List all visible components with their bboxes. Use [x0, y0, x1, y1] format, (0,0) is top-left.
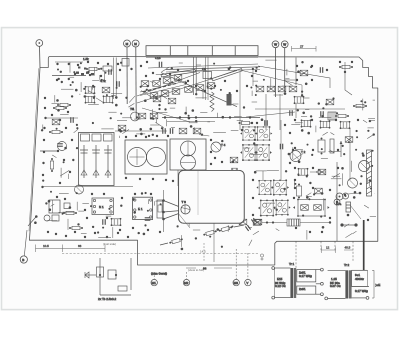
junction [83, 88, 85, 90]
caps left of cans [163, 128, 165, 134]
wire [329, 151, 341, 153]
wire [122, 117, 132, 119]
svg-text:48.5: 48.5 [345, 246, 351, 250]
wire [374, 193, 376, 195]
misc wires across board [42, 58, 352, 233]
junction [49, 208, 52, 211]
wire left edge double line [29, 69, 39, 232]
junction [119, 129, 121, 131]
left column dots [41, 97, 73, 188]
wire [88, 103, 99, 105]
resistor [353, 104, 367, 107]
capacitor pair [290, 110, 292, 116]
junction [207, 86, 209, 88]
junction [57, 109, 60, 112]
box with X [300, 70, 308, 76]
junction [309, 182, 311, 184]
cluster E2 center-right cans [211, 120, 294, 180]
svg-text:27: 27 [300, 45, 304, 49]
striped vertical box [346, 202, 351, 212]
junction [41, 129, 43, 131]
wire [285, 79, 296, 81]
junction [297, 173, 299, 175]
wire long [167, 121, 215, 123]
pointer bar 1 [161, 70, 196, 78]
svg-text:M3: M3 [234, 281, 238, 285]
wire [370, 215, 376, 217]
wire [351, 161, 353, 172]
wire [120, 129, 125, 132]
wire [341, 173, 343, 185]
wire [323, 198, 325, 210]
junction [355, 149, 357, 151]
junction [87, 71, 89, 73]
junction [146, 89, 148, 91]
junction [255, 94, 257, 96]
junction [232, 160, 234, 162]
wire [128, 103, 134, 107]
transistor T4 [211, 142, 221, 152]
junction [132, 108, 135, 111]
junction [318, 102, 320, 104]
junction [301, 129, 304, 132]
svg-text:Tr 1: Tr 1 [289, 262, 295, 266]
wire [239, 118, 241, 130]
junction [152, 118, 154, 120]
junction [360, 100, 362, 102]
wire [352, 231, 356, 234]
junction [310, 115, 312, 117]
junction [217, 228, 220, 231]
wire [237, 120, 243, 122]
junction [50, 191, 52, 193]
xbox above cans [138, 113, 146, 119]
wire [252, 101, 258, 103]
capacitor C5 [159, 62, 161, 68]
junction [160, 203, 162, 205]
svg-text:}+E: }+E [376, 283, 381, 287]
diagonal wire [350, 205, 361, 219]
svg-text:T 2: T 2 [301, 150, 306, 154]
terminal W2 [281, 41, 288, 92]
junction [241, 129, 244, 132]
wire [177, 170, 179, 186]
wire vertical [239, 72, 241, 117]
box row above big box [85, 95, 96, 103]
dashed projection [203, 243, 205, 262]
junction [364, 101, 366, 103]
pointer bar 2 [212, 69, 242, 81]
junction [105, 72, 107, 74]
resistor R40 [63, 211, 77, 214]
svg-text:V: V [246, 281, 248, 285]
svg-text:M1: M1 [152, 281, 156, 285]
junction [73, 71, 75, 73]
wire [134, 118, 141, 120]
wire [202, 89, 204, 99]
wire [59, 211, 63, 213]
junction [256, 67, 258, 69]
wire [61, 88, 74, 90]
junction [370, 188, 372, 190]
resistor R20 [339, 65, 353, 68]
junction [301, 91, 303, 93]
junction [161, 127, 163, 129]
svg-text:T 4: T 4 [221, 143, 226, 147]
junction [76, 127, 78, 129]
junction [101, 79, 103, 81]
wire [101, 128, 113, 130]
svg-text:0.17 Wdg: 0.17 Wdg [299, 274, 312, 278]
dots [125, 135, 212, 182]
wire [63, 211, 75, 213]
junction [115, 104, 118, 107]
junction [313, 193, 315, 195]
junction [321, 192, 324, 195]
xbox [118, 125, 126, 131]
cluster E center IF modules [125, 113, 212, 182]
svg-text:14.5: 14.5 [200, 249, 206, 253]
wire [47, 220, 57, 222]
junction [254, 171, 257, 174]
wire [300, 222, 330, 224]
wire [304, 97, 310, 99]
junction [48, 200, 51, 203]
junction [71, 95, 73, 97]
junction [92, 86, 94, 88]
IF can Fi4 [255, 126, 273, 141]
wire [364, 205, 369, 208]
IF can row2 [258, 199, 276, 216]
cluster A top-left components [52, 57, 119, 107]
terminal W1 [272, 41, 279, 97]
wire [59, 193, 69, 195]
resistor R1 [86, 67, 100, 70]
wire [98, 236, 111, 238]
wire [185, 107, 187, 113]
transistor T3 [181, 200, 190, 214]
wire [216, 113, 218, 118]
wire [181, 235, 183, 247]
junction [171, 67, 173, 69]
small box [64, 203, 70, 209]
box K2 [102, 87, 110, 93]
wire [94, 68, 96, 76]
junction [209, 236, 211, 238]
box K40 [111, 218, 122, 226]
wire [52, 103, 60, 105]
wire [295, 122, 303, 124]
wire [284, 80, 293, 85]
wire [262, 171, 264, 180]
small box on edge [122, 59, 129, 67]
dimension bottom-center dashed [62, 252, 258, 254]
junction [171, 81, 173, 83]
big rounded rect over texture [179, 170, 245, 223]
wire [108, 111, 116, 113]
junction [195, 93, 197, 95]
wire long horizontal [166, 67, 260, 70]
junction [263, 79, 265, 81]
junction [61, 81, 63, 83]
wire [40, 150, 57, 152]
wire [154, 201, 156, 205]
junction [64, 147, 67, 150]
junction [116, 87, 118, 89]
junction [76, 192, 78, 194]
junction [322, 226, 325, 229]
svg-text:N 1: N 1 [99, 205, 104, 209]
slanted capacitor [251, 218, 256, 224]
transistor T1 [131, 112, 140, 121]
coil L1 [103, 66, 112, 71]
junction [288, 153, 291, 156]
wire [233, 103, 239, 105]
junction [77, 223, 79, 225]
junction [307, 132, 310, 135]
resistor [50, 158, 53, 172]
wire [60, 114, 69, 116]
wire [262, 222, 287, 224]
svg-text:C15: C15 [155, 56, 161, 60]
junction [178, 79, 181, 82]
wire long left horizontal [42, 186, 133, 188]
wire right column [345, 62, 352, 95]
bottom-left lamp circuit [85, 258, 131, 301]
module E1 [133, 197, 153, 219]
bottom-center terminals [151, 215, 264, 286]
wire [69, 76, 74, 78]
junction [119, 130, 122, 133]
xbox right [315, 188, 323, 194]
junction [321, 148, 323, 150]
board outline [29, 57, 377, 266]
wire [285, 78, 289, 80]
wire [112, 227, 114, 238]
junction [56, 99, 59, 102]
junction [253, 129, 255, 131]
junction [181, 248, 184, 251]
wire vertical long [336, 162, 338, 241]
wire [306, 193, 311, 196]
capacitor C30 [321, 111, 323, 117]
junction [62, 213, 64, 215]
junction [100, 68, 102, 70]
junction [185, 82, 188, 85]
junction [250, 87, 252, 89]
vertical wires from gang [193, 58, 195, 96]
junction [150, 128, 153, 131]
junction [57, 69, 59, 71]
interior crease line [197, 171, 199, 215]
wire [122, 130, 129, 134]
box [294, 96, 305, 104]
junction [138, 232, 140, 234]
wire [161, 95, 167, 99]
wire [74, 129, 78, 133]
junction [155, 97, 157, 99]
wire [344, 224, 349, 227]
junction [132, 198, 135, 201]
wire [171, 127, 175, 129]
junction [70, 84, 72, 86]
junction [125, 97, 127, 99]
wire [52, 155, 56, 158]
junction [84, 95, 86, 97]
wire [136, 133, 145, 135]
junction [308, 198, 310, 200]
junction [371, 165, 373, 167]
battery spring [367, 150, 372, 196]
wire [292, 147, 294, 159]
junction [297, 109, 299, 111]
svg-text:1.5k: 1.5k [83, 57, 89, 61]
junction [164, 108, 166, 110]
wire [80, 82, 82, 92]
coil zigzag [210, 92, 214, 112]
component row y80-100 [141, 81, 149, 87]
IF can Fi5 [240, 144, 258, 161]
junction [306, 175, 308, 177]
dial cord wire [137, 71, 237, 104]
antenna wires vertical [113, 58, 115, 100]
capacitor C20 [320, 67, 322, 73]
wire [267, 169, 279, 171]
junction [158, 108, 160, 110]
wire [189, 122, 198, 124]
wire [117, 120, 127, 122]
wire [54, 95, 56, 102]
junction [90, 205, 92, 207]
terminal M2 [132, 40, 139, 119]
top comps row [239, 121, 253, 124]
wire [295, 241, 297, 268]
wire [249, 240, 252, 246]
wire [111, 95, 116, 97]
small box [230, 157, 238, 163]
junction [102, 227, 104, 229]
junction [291, 142, 293, 144]
box K5 [52, 119, 60, 125]
wire [305, 109, 309, 111]
dimension 12 bottom right [322, 246, 354, 253]
wire [279, 94, 281, 130]
wire [148, 64, 258, 68]
small box row y88 [256, 86, 264, 92]
transistor T3 redraw [181, 200, 190, 214]
wire [196, 97, 207, 99]
dimension 27 top right [292, 45, 317, 52]
wire [152, 109, 154, 118]
junction [373, 133, 375, 135]
wire [332, 175, 340, 177]
svg-text:Tr 2: Tr 2 [344, 263, 350, 267]
wire [42, 125, 44, 131]
wire [368, 117, 375, 119]
junction [152, 134, 154, 136]
box K1 [85, 86, 96, 94]
wire [200, 112, 207, 114]
wire [156, 112, 167, 114]
junction [210, 88, 212, 90]
junction [75, 89, 78, 92]
dial cord wire [161, 73, 237, 107]
wires to T3 [162, 199, 181, 220]
dots in dial area [140, 61, 257, 92]
big rounded rect redraw clean [0, 0, 1, 1]
circled plus mark [260, 254, 263, 257]
wire [111, 92, 122, 94]
wire right run [258, 66, 330, 88]
wire [69, 62, 71, 73]
junction [80, 62, 82, 64]
svg-text:T 3: T 3 [182, 200, 187, 204]
wire [51, 204, 55, 206]
wire [106, 215, 112, 217]
wire [150, 81, 153, 83]
capacitor C1 [109, 69, 111, 75]
wire gang verticals [205, 58, 207, 101]
wire [295, 104, 297, 118]
box [298, 168, 309, 176]
small box [345, 137, 353, 143]
small comps row [239, 219, 247, 225]
wire [253, 231, 259, 235]
wire [370, 120, 375, 122]
resistor R2 [57, 103, 71, 106]
junction [147, 210, 149, 212]
wire [162, 67, 170, 72]
wire [60, 168, 62, 178]
box row [301, 119, 312, 127]
wire [155, 122, 164, 127]
box [326, 99, 334, 105]
wire [293, 180, 295, 187]
wire [321, 158, 328, 160]
junction [301, 94, 303, 96]
junction [76, 124, 78, 126]
wire [270, 78, 272, 89]
junction [243, 106, 245, 108]
wire [99, 75, 101, 80]
wire [156, 74, 163, 76]
junction [348, 141, 350, 143]
arrow trimmer [340, 141, 342, 157]
junction [60, 71, 62, 73]
junction [120, 205, 122, 207]
wire [207, 121, 210, 123]
striped box [328, 112, 336, 120]
thick wire down to transformer [363, 220, 365, 270]
IF can ZF2 [170, 139, 206, 170]
junction [108, 208, 110, 210]
wire [363, 120, 367, 123]
resistor R41 [69, 226, 83, 229]
junction [362, 154, 365, 157]
junction [72, 159, 74, 161]
junction [177, 225, 179, 227]
junction [221, 246, 223, 248]
wire [265, 94, 267, 130]
wire [280, 120, 282, 180]
wire [67, 219, 69, 230]
small box vertical [232, 168, 238, 176]
svg-text:2x Tb 2.5x0.2: 2x Tb 2.5x0.2 [98, 297, 116, 301]
junction [140, 86, 142, 88]
wire [333, 173, 340, 177]
junction [92, 226, 94, 228]
wire [150, 124, 159, 126]
